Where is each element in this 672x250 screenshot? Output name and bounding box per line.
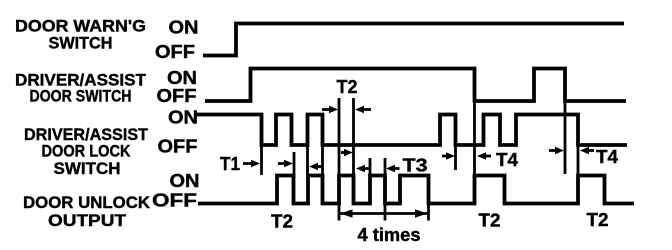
svg-text:OUTPUT: OUTPUT xyxy=(48,212,126,230)
svg-text:T2: T2 xyxy=(271,212,293,232)
T3 left arrow (points left into x=355) xyxy=(356,165,369,172)
svg-text:SWITCH: SWITCH xyxy=(54,160,121,178)
T3 right arrow (points left into x=385) xyxy=(386,165,400,172)
svg-text:T1: T1 xyxy=(220,154,240,174)
svg-text:DOOR WARN'G: DOOR WARN'G xyxy=(15,18,146,36)
svg-text:DOOR SWITCH: DOOR SWITCH xyxy=(30,88,132,106)
T4 second left arrow xyxy=(549,147,564,154)
connector line at x=307.5 (S3 rise2 / S4 rise2) xyxy=(306,145,309,176)
T4 second right arrow xyxy=(580,147,594,154)
arrow into x=294 xyxy=(278,160,293,167)
svg-text:OFF: OFF xyxy=(152,191,197,211)
T1 arrow xyxy=(243,160,260,167)
svg-text:T4: T4 xyxy=(496,150,518,170)
extension line at x=370 (S4 rise4 extended up) xyxy=(369,158,372,176)
extension line at x=565 (S2 pulse fall extended down, T4 reference) xyxy=(564,101,567,174)
svg-text:T3: T3 xyxy=(403,156,428,176)
signal 3 waveform: DRIVER/ASSIST DOOR LOCK SWITCH xyxy=(197,115,628,146)
T2 measurement line at x=353.5 (S4 fall3 extended) xyxy=(352,98,355,204)
signal 4 waveform: DOOR UNLOCK OUTPUT xyxy=(198,176,634,204)
extension line at x=261.5 (S3 first fall, T1 target) xyxy=(260,145,263,175)
svg-text:T2: T2 xyxy=(587,210,609,230)
T2 top right arrow xyxy=(355,106,371,113)
T4 first right arrow xyxy=(477,152,491,159)
extension line at x=455.5 (S3 pulse fall extended down) xyxy=(454,145,457,170)
connector line at x=578 (S3 fall / S4 rise) xyxy=(577,145,580,176)
svg-text:ON: ON xyxy=(167,68,197,88)
svg-text:ON: ON xyxy=(170,171,200,191)
T2 measurement line at x=339 (S4 rise3 extended, 4-times left bar) xyxy=(338,98,341,221)
signal 2 waveform: DRIVER/ASSIST DOOR SWITCH xyxy=(205,69,626,102)
svg-text:DRIVER/ASSIST: DRIVER/ASSIST xyxy=(24,126,148,144)
svg-text:DOOR LOCK: DOOR LOCK xyxy=(42,143,131,161)
svg-text:T2: T2 xyxy=(479,211,501,231)
T2 top left arrow xyxy=(322,106,338,113)
svg-text:T2: T2 xyxy=(337,77,358,97)
svg-text:ON: ON xyxy=(169,18,199,38)
extension line at x=385 (S4 fall4 extended) xyxy=(384,158,387,221)
arrow into x=353.5 pointing right xyxy=(341,149,353,156)
T4 first left arrow xyxy=(442,152,455,159)
signal 1 waveform: DOOR WARN'G SWITCH xyxy=(203,24,624,56)
svg-text:OFF: OFF xyxy=(157,86,197,106)
svg-text:4 times: 4 times xyxy=(358,225,421,245)
svg-text:OFF: OFF xyxy=(155,42,195,62)
4-times right bar at x=428.5 xyxy=(427,204,430,221)
svg-text:SWITCH: SWITCH xyxy=(49,35,113,53)
svg-text:ON: ON xyxy=(168,108,198,128)
4 times left arrowhead xyxy=(341,209,353,217)
arrow at x=308.5 pointing left xyxy=(309,163,323,170)
connector line at x=474.5 (S2 fall / S4 rise, T4 reference) xyxy=(473,101,476,176)
4 times dimension line xyxy=(340,212,428,215)
4 times right arrowhead xyxy=(415,209,427,217)
connector line at x=322.5 (S3 fall2 / S4 fall2) xyxy=(321,145,324,176)
svg-text:DOOR UNLOCK: DOOR UNLOCK xyxy=(23,194,150,212)
extension line at x=294 (S4 pulse1 fall extended up) xyxy=(293,152,296,176)
svg-text:T4: T4 xyxy=(596,147,618,167)
svg-text:OFF: OFF xyxy=(158,137,198,157)
